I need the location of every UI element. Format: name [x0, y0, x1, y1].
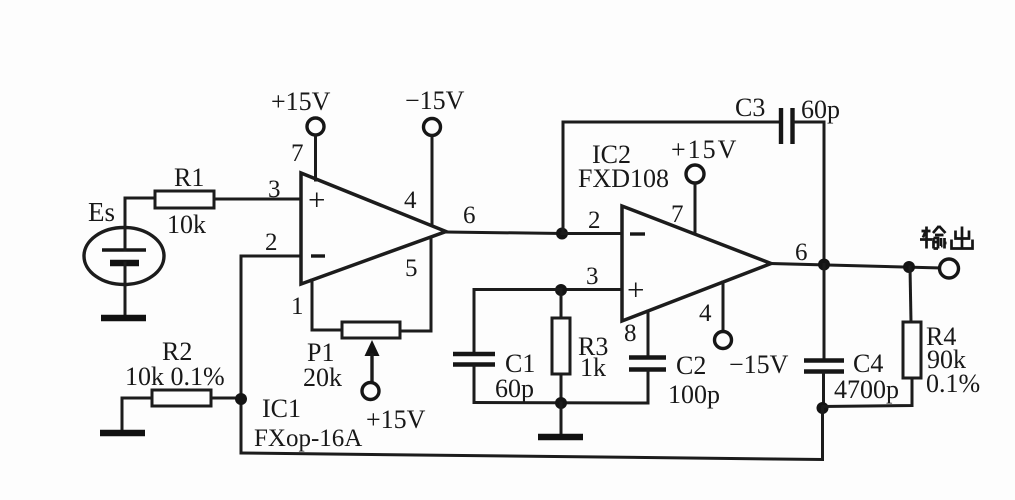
wire C4 top lead: [823, 265, 826, 359]
junction R2 node: [235, 393, 247, 405]
svg-text:R1: R1: [174, 163, 204, 192]
svg-text:2: 2: [588, 207, 601, 234]
wire R4 top lead: [910, 267, 911, 322]
wire C2 bottom lead: [647, 371, 650, 403]
wire C3 right down to output node: [794, 122, 824, 260]
svg-text:4: 4: [699, 300, 712, 327]
wire pin3 IC2: [561, 288, 622, 291]
wire IC1 output: [446, 232, 562, 234]
junction output / C4 node: [818, 259, 830, 271]
svg-text:C4: C4: [853, 349, 883, 378]
junction R3 top node: [555, 284, 567, 296]
svg-text:0.1%: 0.1%: [926, 369, 980, 398]
svg-text:10k: 10k: [167, 210, 206, 239]
wire pin7: [314, 135, 317, 180]
svg-text:1: 1: [291, 293, 304, 320]
svg-text:C2: C2: [676, 351, 706, 380]
junction R4 top node: [903, 261, 915, 273]
wire bottom feedback run: [241, 408, 823, 460]
junction node at IC2 input: [556, 228, 568, 240]
wire to IC2 pin2: [562, 232, 622, 235]
wire pin7 IC2: [694, 183, 697, 234]
wire pin4: [431, 136, 434, 226]
svg-text:Es: Es: [88, 197, 115, 227]
wire Es top to R1: [125, 198, 155, 250]
svg-text:3: 3: [268, 176, 281, 203]
potentiometer P1: [342, 322, 400, 382]
svg-text:+: +: [308, 182, 325, 217]
resistor R3: [552, 318, 570, 374]
wire bottom node run: [474, 401, 648, 405]
svg-text:+15V: +15V: [671, 135, 738, 164]
capacitor C3: [781, 108, 793, 144]
wire R2 left to ground: [122, 398, 152, 430]
wire R3 top lead: [560, 290, 563, 318]
wire pin4 lead IC2: [722, 282, 725, 332]
wire R1 to pin3: [214, 198, 301, 201]
junction C4 bottom node: [817, 402, 829, 414]
wire pin8 lead: [647, 311, 650, 355]
svg-text:4: 4: [404, 187, 417, 214]
label output (Chinese): [920, 226, 973, 249]
svg-text:+15V: +15V: [271, 87, 331, 116]
wire IC2 output: [771, 264, 940, 269]
wire C4 bottom lead: [822, 373, 825, 408]
power +15V terminal IC2: [686, 165, 704, 183]
output terminal: [940, 259, 959, 278]
capacitor C2: [629, 358, 666, 370]
svg-text:20k: 20k: [303, 363, 342, 392]
wire feedback up and top run to C3: [563, 122, 779, 233]
wire Es bottom to ground: [124, 263, 127, 316]
svg-text:5: 5: [405, 255, 418, 282]
svg-text:6: 6: [463, 202, 476, 229]
wire C1 bottom lead: [473, 366, 476, 403]
wire R3 bottom lead: [560, 374, 563, 403]
resistor R1: [155, 191, 214, 208]
resistor R4: [903, 322, 921, 378]
capacitor C4: [804, 361, 844, 372]
power -15V terminal IC1: [424, 119, 441, 136]
signal source Es: [84, 228, 164, 285]
svg-text:60p: 60p: [495, 374, 534, 403]
op-amp IC2: [622, 206, 771, 321]
svg-text:7: 7: [291, 140, 304, 167]
svg-text:4700p: 4700p: [834, 375, 899, 404]
wire pin1 to P1 left: [312, 280, 342, 330]
svg-text:C3: C3: [735, 93, 765, 122]
power +15V terminal IC1: [307, 118, 324, 135]
power +15V terminal P1: [362, 383, 379, 400]
ground below R2: [100, 430, 145, 437]
svg-text:1k: 1k: [580, 353, 606, 382]
svg-text:7: 7: [671, 201, 684, 228]
svg-text:−15V: −15V: [405, 86, 465, 115]
svg-text:60p: 60p: [801, 95, 840, 124]
svg-text:100p: 100p: [668, 380, 720, 409]
ground below R3: [538, 403, 583, 437]
svg-text:−15V: −15V: [729, 350, 789, 379]
ground below Es: [101, 315, 146, 322]
resistor R2: [152, 390, 211, 406]
wire R2 right: [211, 397, 241, 400]
svg-text:10k 0.1%: 10k 0.1%: [125, 362, 225, 391]
op-amp IC1: [301, 173, 446, 284]
svg-text:FXD108: FXD108: [578, 164, 669, 193]
wire pin5 to P1 right: [400, 238, 431, 331]
capacitor C1: [453, 354, 495, 365]
wire R4 bottom lead: [823, 378, 912, 407]
svg-text:6: 6: [795, 239, 808, 266]
svg-text:+15V: +15V: [366, 405, 426, 434]
svg-text:3: 3: [586, 263, 599, 290]
svg-text:+: +: [627, 272, 644, 307]
svg-text:FXop-16A: FXop-16A: [254, 425, 362, 452]
svg-text:IC1: IC1: [262, 394, 301, 423]
power -15V terminal IC2: [715, 332, 732, 349]
wire pin2 and feedback vertical: [241, 256, 301, 453]
svg-text:8: 8: [624, 320, 637, 347]
svg-text:2: 2: [265, 229, 278, 256]
wire C1 branch top: [474, 290, 561, 353]
junction ground node: [555, 397, 567, 409]
